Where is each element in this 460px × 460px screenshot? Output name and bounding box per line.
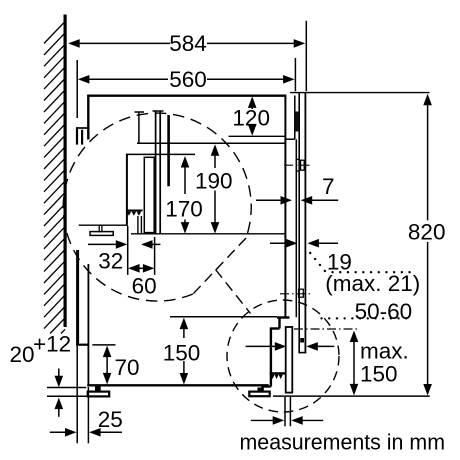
svg-text:820: 820 <box>408 220 446 245</box>
svg-text:+12: +12 <box>33 331 71 356</box>
svg-text:120: 120 <box>232 106 270 131</box>
svg-text:150: 150 <box>163 341 201 366</box>
svg-text:measurements in mm: measurements in mm <box>240 430 446 455</box>
svg-text:(max. 21): (max. 21) <box>325 271 420 296</box>
svg-text:170: 170 <box>165 197 203 222</box>
svg-text:584: 584 <box>169 31 207 56</box>
svg-text:560: 560 <box>169 67 207 92</box>
svg-text:60: 60 <box>132 274 157 299</box>
svg-text:20: 20 <box>10 342 35 367</box>
svg-text:190: 190 <box>195 169 233 194</box>
svg-text:32: 32 <box>98 249 123 274</box>
svg-text:70: 70 <box>115 355 140 380</box>
svg-text:max.: max. <box>360 339 409 364</box>
svg-text:150: 150 <box>360 361 398 386</box>
svg-text:25: 25 <box>98 407 123 432</box>
svg-text:7: 7 <box>322 174 335 199</box>
svg-text:50-60: 50-60 <box>355 299 413 324</box>
